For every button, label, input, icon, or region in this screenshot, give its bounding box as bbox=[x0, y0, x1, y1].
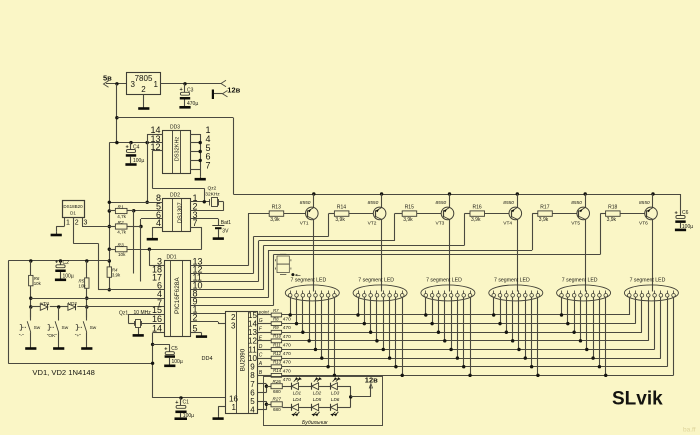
wire emitter rail 5v bbox=[233, 194, 680, 196]
wire 5v trunk down bbox=[115, 84, 118, 143]
svg-text:R15: R15 bbox=[405, 205, 414, 211]
resistor R13 470 bbox=[271, 360, 291, 375]
diode VD2 bbox=[68, 301, 77, 310]
ground DD3 bbox=[195, 177, 206, 179]
wire data route to DD1 pin6 bbox=[73, 243, 109, 289]
wire segment row E bbox=[282, 340, 649, 342]
svg-text:1: 1 bbox=[232, 403, 237, 412]
resistor R1 4.7k bbox=[115, 204, 127, 219]
wire DD2 pin6 scl jog bbox=[139, 219, 163, 229]
wire emitter VT5 bbox=[584, 192, 587, 207]
wire 5v horizontal feed bbox=[109, 141, 163, 144]
svg-text:R9: R9 bbox=[273, 325, 279, 330]
diode VD1 bbox=[40, 301, 50, 310]
wire DD1 pin5 vss bbox=[191, 333, 202, 335]
svg-text:Sw: Sw bbox=[34, 325, 41, 331]
svg-text:LD6: LD6 bbox=[331, 397, 340, 402]
wire emitter VT6 bbox=[651, 192, 654, 207]
voltage regulator 7805 bbox=[127, 73, 161, 95]
svg-text:R8: R8 bbox=[273, 316, 279, 321]
svg-text:C4: C4 bbox=[133, 145, 140, 151]
svg-text:SLvik: SLvik bbox=[612, 389, 663, 410]
svg-text:R7: R7 bbox=[273, 308, 279, 313]
svg-text:8550: 8550 bbox=[300, 200, 311, 206]
svg-text:14: 14 bbox=[152, 323, 162, 333]
svg-text:100µ: 100µ bbox=[63, 273, 74, 279]
svg-text:DD4: DD4 bbox=[202, 356, 213, 362]
wire DD4 pin1 gnd bbox=[218, 407, 225, 417]
wire 5v left rail bbox=[108, 143, 111, 267]
svg-text:C: C bbox=[259, 353, 263, 359]
resistor R7 470 bbox=[271, 308, 291, 323]
svg-text:VT6: VT6 bbox=[639, 221, 648, 227]
wire 5v to regulator bbox=[106, 82, 126, 85]
svg-text:VT4: VT4 bbox=[503, 221, 512, 227]
wire to DD1 pin4 bbox=[31, 298, 164, 300]
wire DD4 pins7,6 merge bbox=[258, 384, 271, 393]
segment labels bbox=[258, 310, 270, 376]
wire R1 leads bbox=[109, 210, 133, 212]
svg-text:Sw: Sw bbox=[90, 325, 97, 331]
wire rail to C6 bbox=[680, 194, 682, 216]
svg-text:R2: R2 bbox=[118, 220, 124, 226]
svg-text:+: + bbox=[126, 144, 129, 150]
svg-text:10k: 10k bbox=[34, 281, 42, 286]
svg-text:R3: R3 bbox=[118, 243, 124, 249]
svg-text:VT2: VT2 bbox=[368, 221, 377, 227]
resistor R10 470 bbox=[271, 334, 291, 349]
svg-text:4,7k: 4,7k bbox=[117, 230, 126, 235]
svg-text:32KHz: 32KHz bbox=[205, 191, 220, 197]
pin numbers DD1 left bbox=[152, 257, 162, 334]
wire segment row B bbox=[282, 375, 674, 377]
svg-text:LD1: LD1 bbox=[293, 390, 302, 395]
svg-text:3,9k: 3,9k bbox=[471, 217, 481, 223]
leds LD1 LD2 LD3 row bbox=[282, 378, 350, 390]
capacitor C6 100u bbox=[675, 210, 694, 230]
svg-text:DS18B20: DS18B20 bbox=[63, 204, 83, 209]
capacitor C3 470u bbox=[179, 84, 198, 108]
wire DD3 pin12 to DD2 pin1 bbox=[152, 151, 204, 202]
wire vdd to DD4 pin16 bbox=[153, 396, 226, 399]
svg-text:680: 680 bbox=[273, 389, 281, 394]
svg-text:8550: 8550 bbox=[436, 200, 447, 206]
IC DD4 BU2090 bbox=[202, 312, 258, 414]
pin numbers DD2 right bbox=[193, 193, 198, 228]
wire base VT5 bbox=[552, 213, 577, 215]
wire emitter VT4 bbox=[516, 192, 519, 207]
svg-text:C6: C6 bbox=[682, 210, 689, 216]
svg-text:8550: 8550 bbox=[571, 200, 582, 206]
display HL6 7 segment LED bbox=[624, 277, 678, 301]
wire R5 column bbox=[85, 261, 88, 318]
wire DD4 pin15 bbox=[258, 314, 272, 316]
svg-text:R14: R14 bbox=[337, 205, 346, 211]
wire segment row D bbox=[282, 349, 655, 351]
wire segment row point bbox=[282, 314, 630, 316]
wire D1 pin3 vcc bbox=[82, 217, 109, 226]
switch Sw minus bbox=[19, 307, 41, 349]
resistor R6 10k bbox=[29, 275, 42, 285]
svg-text:7: 7 bbox=[193, 218, 198, 228]
svg-text:BU2090: BU2090 bbox=[240, 348, 247, 371]
svg-text:LD2: LD2 bbox=[313, 390, 322, 395]
svg-text:5: 5 bbox=[193, 323, 198, 333]
wires display HL6 pins to rows bbox=[630, 297, 674, 375]
svg-text:C5: C5 bbox=[171, 346, 178, 352]
resistor R3 10k bbox=[115, 243, 127, 258]
display HL3 7 segment LED bbox=[421, 277, 475, 301]
wire regulator output to 12v connector bbox=[161, 82, 222, 85]
svg-text:"+": "+" bbox=[75, 333, 82, 339]
svg-text:3,9k: 3,9k bbox=[112, 272, 121, 277]
wire emitter VT3 bbox=[448, 192, 451, 207]
svg-text:Bat1: Bat1 bbox=[221, 220, 232, 226]
wire 5v to transistor rail bbox=[117, 118, 234, 195]
svg-text:C3: C3 bbox=[187, 87, 194, 93]
svg-text:+: + bbox=[675, 210, 678, 216]
resistor R5 10k bbox=[79, 278, 90, 288]
switch Sw plus bbox=[75, 307, 97, 349]
svg-text:2: 2 bbox=[141, 85, 146, 94]
wire DD1 pin9 to R18 bbox=[191, 214, 606, 306]
svg-text:3V: 3V bbox=[222, 229, 229, 235]
wire collector VT4 to display bbox=[517, 219, 519, 291]
wire DD1 pin14 vdd down bbox=[151, 333, 164, 398]
svg-text:VT3: VT3 bbox=[436, 221, 445, 227]
svg-text:7 segment LED: 7 segment LED bbox=[358, 277, 394, 283]
wire DD3 pin14 bbox=[147, 134, 163, 136]
svg-text:+: + bbox=[164, 347, 167, 353]
ground Qz1 bbox=[133, 327, 144, 335]
svg-text:8550: 8550 bbox=[639, 200, 650, 206]
svg-text:R10: R10 bbox=[273, 334, 282, 339]
wire sqw to DD1 pin3 bbox=[149, 249, 164, 266]
svg-text:3,9k: 3,9k bbox=[539, 217, 549, 223]
wire vcc drop to DD2 pin8 bbox=[146, 134, 149, 204]
pin numbers DD4 left bbox=[229, 313, 238, 412]
svg-text:DS1307: DS1307 bbox=[177, 202, 183, 223]
svg-text:10k: 10k bbox=[79, 283, 87, 288]
pin numbers DD3 left bbox=[150, 125, 160, 152]
svg-text:R17: R17 bbox=[540, 205, 549, 211]
svg-text:12в: 12в bbox=[227, 86, 240, 95]
ground 7805 bbox=[138, 95, 149, 109]
capacitor C1 100u bbox=[175, 398, 195, 419]
svg-text:470: 470 bbox=[283, 317, 291, 323]
ground DD2 bbox=[147, 236, 158, 239]
svg-text:"OK": "OK" bbox=[47, 333, 58, 339]
wire DD2 pin8 vcc bbox=[109, 202, 163, 204]
wire DD4 pin14 bbox=[258, 323, 272, 325]
wire 5v bottom long bbox=[8, 363, 152, 365]
svg-text:470: 470 bbox=[283, 377, 291, 383]
wire segment row C bbox=[282, 358, 661, 360]
transistor VT1 8550 bbox=[300, 200, 318, 227]
wire DD2 pin1 to crystal bbox=[190, 200, 210, 203]
wire segment row G bbox=[282, 323, 636, 325]
signature SLvik bbox=[612, 389, 663, 410]
svg-text:8550: 8550 bbox=[368, 200, 379, 206]
svg-text:1: 1 bbox=[154, 80, 159, 89]
wire R3 sqw line bbox=[109, 248, 201, 251]
wire emitter VT1 bbox=[312, 192, 315, 207]
wire DD4 pins5,4 merge bbox=[258, 401, 271, 410]
wire DD1 pin12 to R14 bbox=[191, 214, 335, 274]
svg-text:VD1, VD2 1N4148: VD1, VD2 1N4148 bbox=[32, 368, 94, 377]
svg-text:Qz2: Qz2 bbox=[208, 186, 217, 192]
wire DD2 pin4 gnd bbox=[152, 227, 163, 236]
svg-text:7805: 7805 bbox=[135, 74, 153, 83]
wire to DD1 pin6 bbox=[109, 289, 164, 291]
wire DD4 pin9 bbox=[258, 366, 272, 368]
wires display HL1 pins to rows bbox=[289, 297, 337, 377]
svg-text:470: 470 bbox=[283, 334, 291, 340]
resistor R9 470 bbox=[271, 325, 291, 340]
svg-text:7 segment LED: 7 segment LED bbox=[426, 277, 462, 283]
svg-text:3: 3 bbox=[131, 80, 136, 89]
svg-text:7 segment LED: 7 segment LED bbox=[562, 277, 598, 283]
transistor VT2 8550 bbox=[368, 200, 386, 227]
svg-text:VT1: VT1 bbox=[300, 221, 309, 227]
svg-text:100µ: 100µ bbox=[183, 413, 194, 419]
wire segment row F bbox=[282, 332, 642, 334]
svg-text:DD3: DD3 bbox=[170, 124, 180, 130]
pin numbers DD2 left bbox=[156, 193, 161, 228]
crystal Qz2 32KHz bbox=[205, 186, 220, 207]
IC DD2 DS1307 bbox=[163, 193, 191, 232]
connector 5v output bbox=[103, 74, 112, 88]
alarm module box bbox=[264, 377, 383, 426]
pin numbers DD4 right bbox=[248, 311, 257, 415]
switch Sw ok bbox=[47, 307, 69, 349]
wire DD4 pin10 bbox=[258, 358, 272, 360]
wire collector VT2 to display bbox=[381, 219, 383, 291]
svg-text:R26: R26 bbox=[273, 379, 282, 384]
wire DD4 pin12 bbox=[258, 340, 272, 342]
svg-text:100µ: 100µ bbox=[682, 224, 693, 230]
labels LD4-6 bbox=[293, 397, 340, 402]
ground D1 bbox=[51, 232, 62, 235]
wire DD4 pin8 bbox=[258, 375, 272, 377]
wire base VT1 bbox=[284, 213, 306, 215]
svg-text:R18: R18 bbox=[608, 205, 617, 211]
wire base VT2 bbox=[349, 213, 374, 215]
wire base VT4 bbox=[485, 213, 510, 215]
resistor R2 4.7k bbox=[115, 220, 127, 235]
svg-text:3,9k: 3,9k bbox=[335, 217, 345, 223]
display HL5 7 segment LED bbox=[557, 277, 611, 301]
crystal Qz1 10MHz bbox=[119, 310, 164, 328]
svg-text:470: 470 bbox=[283, 351, 291, 357]
svg-text:DD2: DD2 bbox=[170, 193, 180, 199]
wire R6 column bbox=[29, 261, 32, 318]
labels LD1-3 bbox=[293, 390, 340, 395]
resistor R17 3.9k bbox=[538, 205, 553, 223]
svg-text:4: 4 bbox=[250, 406, 255, 415]
svg-text:Sw: Sw bbox=[62, 325, 69, 331]
svg-text:470: 470 bbox=[283, 325, 291, 331]
svg-text:Будильник: Будильник bbox=[302, 420, 328, 426]
capacitor C4 100u bbox=[125, 143, 144, 165]
wire D1 pin2 data bbox=[74, 217, 79, 243]
wire segment row A bbox=[282, 366, 668, 368]
svg-text:R27: R27 bbox=[273, 396, 282, 401]
wire sda to DD1 pin18 bbox=[133, 211, 135, 274]
wire DD1 pin8 to R17 bbox=[191, 214, 538, 298]
svg-text:+: + bbox=[175, 400, 178, 406]
wire DD2 pin2 to crystal bbox=[190, 202, 223, 211]
resistor R14 470 bbox=[271, 368, 291, 383]
wires display HL4 pins to rows bbox=[492, 297, 540, 377]
svg-text:10 MHz: 10 MHz bbox=[134, 310, 152, 316]
svg-text:R13: R13 bbox=[273, 360, 282, 365]
svg-text:VT5: VT5 bbox=[571, 221, 580, 227]
svg-text:7 segment LED: 7 segment LED bbox=[494, 277, 530, 283]
svg-text:LD5: LD5 bbox=[313, 397, 322, 402]
svg-text:R14: R14 bbox=[273, 368, 282, 373]
label alarm bbox=[302, 420, 328, 426]
transistor VT4 8550 bbox=[503, 200, 521, 227]
svg-text:D1: D1 bbox=[70, 211, 76, 216]
svg-text:C1: C1 bbox=[183, 400, 190, 406]
wire collector VT3 to display bbox=[449, 219, 451, 291]
wire DD1 pin11 to R15 bbox=[191, 214, 402, 282]
wire scl to DD1 pin17 bbox=[140, 227, 142, 282]
watermark bbox=[683, 427, 696, 434]
wire DD2 pin7 sqw down bbox=[190, 227, 201, 249]
svg-text:C2: C2 bbox=[63, 260, 70, 266]
svg-text:470: 470 bbox=[283, 342, 291, 348]
wires display HL5 pins to rows bbox=[560, 297, 608, 377]
resistor R11 470 bbox=[271, 342, 291, 357]
resistor R13 3.9k bbox=[269, 205, 284, 223]
svg-text:1: 1 bbox=[66, 220, 70, 227]
svg-text:100µ: 100µ bbox=[172, 359, 183, 365]
resistor R14 3.9k bbox=[334, 205, 349, 223]
resistor R27 680 bbox=[271, 396, 282, 412]
wire led supply 12v bbox=[349, 375, 378, 407]
connector 12v input bbox=[212, 80, 241, 99]
wires display HL2 pins to rows bbox=[356, 297, 404, 377]
wire DD1 pin1 to DD4 pin2 bbox=[191, 313, 225, 315]
sensor D1 DS18B20 bbox=[63, 201, 85, 218]
wire diode line to DD1 pin7 bbox=[31, 305, 164, 308]
svg-text:4,7k: 4,7k bbox=[117, 214, 126, 219]
label diodes type bbox=[32, 368, 94, 377]
wire DD2 pin3 to battery bbox=[190, 219, 218, 226]
svg-text:2: 2 bbox=[75, 220, 79, 227]
wires display HL3 pins to rows bbox=[424, 297, 472, 377]
wire R2 leads bbox=[109, 226, 141, 228]
capacitor C2 100u bbox=[55, 260, 74, 280]
wire D1 pin1 bbox=[56, 217, 70, 232]
transistor VT3 8550 bbox=[436, 200, 454, 227]
wire DD4 pin11 bbox=[258, 349, 272, 351]
svg-text:3: 3 bbox=[84, 220, 88, 227]
svg-text:100µ: 100µ bbox=[133, 158, 144, 164]
svg-text:+: + bbox=[180, 87, 183, 93]
wire DD1 pin2 to DD4 pin3 bbox=[191, 322, 225, 324]
svg-text:470µ: 470µ bbox=[187, 101, 198, 107]
wire base VT6 bbox=[620, 213, 645, 215]
wire DD4 pin13 bbox=[258, 332, 272, 334]
svg-text:VD2: VD2 bbox=[68, 301, 77, 306]
ground Bat1 bbox=[213, 229, 224, 238]
svg-text:10k: 10k bbox=[118, 252, 126, 257]
svg-text:12в: 12в bbox=[365, 375, 378, 384]
svg-text:8550: 8550 bbox=[503, 200, 514, 206]
transistor VT6 8550 bbox=[639, 200, 657, 227]
svg-text:R1: R1 bbox=[118, 204, 124, 210]
resistor R18 3.9k bbox=[606, 205, 621, 223]
wire collector VT1 to display bbox=[313, 219, 315, 291]
wire to C5 bbox=[153, 344, 170, 346]
resistor R16 3.9k bbox=[470, 205, 485, 223]
svg-text:4: 4 bbox=[156, 218, 161, 228]
wire R4 bottom bbox=[108, 277, 111, 291]
svg-text:R12: R12 bbox=[273, 351, 282, 356]
display HL1 7 segment LED bbox=[285, 277, 339, 301]
display HL4 7 segment LED bbox=[489, 277, 543, 301]
svg-text:LD4: LD4 bbox=[293, 397, 302, 402]
svg-text:+: + bbox=[55, 260, 58, 266]
svg-text:7 segment LED: 7 segment LED bbox=[630, 277, 666, 283]
svg-text:DD1: DD1 bbox=[166, 254, 176, 260]
svg-text:7 segment LED: 7 segment LED bbox=[291, 277, 327, 283]
wire collector VT5 to display bbox=[585, 219, 587, 291]
resistor R4 3.9k bbox=[107, 267, 121, 277]
svg-text:680: 680 bbox=[273, 407, 281, 412]
capacitor C5 100u bbox=[164, 344, 183, 365]
display HL2 7 segment LED bbox=[353, 277, 407, 301]
resistor R15 3.9k bbox=[402, 205, 417, 223]
wire emitter VT2 bbox=[380, 192, 383, 207]
svg-text:point: point bbox=[258, 310, 270, 315]
svg-text:VD1: VD1 bbox=[41, 301, 50, 306]
svg-text:470: 470 bbox=[283, 360, 291, 366]
wire collector VT6 to display bbox=[652, 219, 654, 291]
wire base VT3 bbox=[417, 213, 442, 215]
wire DD2 pin5 sda bbox=[132, 209, 163, 212]
svg-text:Qz1: Qz1 bbox=[119, 311, 128, 317]
transistor VT5 8550 bbox=[571, 200, 589, 227]
wire DD1 pin10 to R16 bbox=[191, 214, 470, 290]
resistor R8 470 bbox=[271, 316, 291, 331]
IC DD1 PIC16F628A bbox=[165, 254, 191, 336]
svg-text:3: 3 bbox=[231, 321, 236, 330]
svg-text:LD3: LD3 bbox=[331, 390, 340, 395]
svg-text:470: 470 bbox=[283, 368, 291, 374]
resistor R26 680 bbox=[271, 379, 282, 394]
pin numbers DD1 right bbox=[193, 257, 203, 334]
svg-text:R11: R11 bbox=[273, 342, 281, 347]
svg-text:7: 7 bbox=[206, 161, 211, 171]
wire DD1 pin13 to R13 bbox=[191, 214, 269, 266]
svg-text:"-": "-" bbox=[19, 333, 24, 339]
ground DD4 bbox=[213, 416, 224, 418]
wire left loop vertical bbox=[8, 261, 10, 363]
wire button top 5v bbox=[8, 259, 109, 262]
svg-text:PIC16F628A: PIC16F628A bbox=[174, 277, 181, 314]
ground DD1 bbox=[196, 335, 207, 337]
resistor R12 470 bbox=[271, 351, 291, 366]
pins DD3 right bbox=[190, 125, 211, 177]
leds LD4 LD5 LD6 row bbox=[282, 404, 350, 416]
IC DD3 DS32KHz bbox=[163, 124, 191, 173]
legend segment map icon bbox=[276, 254, 301, 276]
svg-text:3,9k: 3,9k bbox=[403, 217, 413, 223]
